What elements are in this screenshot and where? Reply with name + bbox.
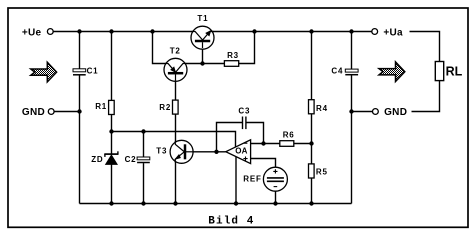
- capacitor C2: [125, 155, 150, 164]
- svg-text:C4: C4: [331, 66, 343, 75]
- wire T1 base down to node: [202, 45, 204, 64]
- wire C2 branch vertical: [143, 132, 145, 204]
- svg-text:GND: GND: [22, 107, 45, 118]
- terminal GND input: [22, 107, 54, 118]
- resistor R4: [309, 100, 328, 114]
- wire GND right to RL bottom: [412, 81, 440, 112]
- wire top rail +Ue to +Ua: [53, 31, 371, 33]
- node ground rail R5: [309, 201, 313, 205]
- svg-text:+Ua: +Ua: [383, 27, 403, 38]
- svg-text:GND: GND: [384, 107, 407, 118]
- wire T2 base to R2: [175, 78, 177, 100]
- op-amp U1: [226, 140, 251, 164]
- wire R1/ZD branch vertical: [111, 32, 113, 204]
- voltage reference REF: [243, 167, 287, 191]
- node top rail left branch: [150, 29, 154, 33]
- wire R6 to divider rail: [294, 143, 312, 145]
- wire C1 branch vertical: [79, 32, 81, 204]
- node T1 base T2 collector: [200, 61, 204, 65]
- svg-text:C1: C1: [87, 66, 99, 75]
- node top rail R4: [309, 29, 313, 33]
- node zener R1: [109, 129, 113, 133]
- terminal +Ue: [22, 27, 53, 38]
- svg-text:R3: R3: [227, 51, 239, 60]
- wire op-amp V- to ground rail: [235, 153, 237, 204]
- svg-text:R2: R2: [159, 103, 171, 112]
- node ground rail ZD: [109, 201, 113, 205]
- wire T3 emitter to ground rail: [175, 160, 177, 204]
- resistor R6: [280, 131, 295, 147]
- wire non-inverting input to REF: [251, 159, 276, 169]
- wire R2 to T3 collector: [175, 114, 177, 143]
- node R6 divider: [309, 141, 313, 145]
- svg-text:R1: R1: [95, 102, 107, 111]
- resistor R5: [309, 164, 328, 178]
- node top rail R1: [109, 29, 113, 33]
- transistor T1: [191, 14, 214, 49]
- resistor R1: [95, 100, 114, 114]
- node inverting input C3: [261, 141, 265, 145]
- wire GND right terminal: [352, 111, 373, 113]
- node GND right: [349, 109, 353, 113]
- svg-text:C2: C2: [125, 155, 137, 164]
- svg-text:R4: R4: [316, 104, 328, 113]
- svg-text:R6: R6: [283, 131, 295, 140]
- terminal GND output: [373, 107, 408, 118]
- svg-text:OA: OA: [235, 146, 247, 155]
- wire REF bottom to ground rail: [275, 191, 277, 204]
- wire T3 base to op-amp output node: [193, 151, 226, 153]
- transistor T2: [164, 47, 187, 82]
- node GND left: [77, 109, 81, 113]
- resistor R3: [224, 51, 239, 67]
- node top rail R3: [252, 29, 256, 33]
- resistor R2: [159, 100, 178, 114]
- svg-text:T2: T2: [170, 47, 181, 56]
- node top rail C4: [349, 29, 353, 33]
- svg-text:RL: RL: [446, 65, 463, 79]
- svg-text:R5: R5: [316, 168, 328, 177]
- wire bottom ground rail: [80, 203, 352, 205]
- node op-amp output: [214, 150, 218, 154]
- capacitor C1: [73, 66, 98, 75]
- wire +Ua to RL top: [410, 32, 440, 62]
- svg-text:ZD: ZD: [91, 155, 103, 164]
- wire zener node supply line to op-amp V+: [112, 132, 236, 151]
- svg-text:+Ue: +Ue: [22, 27, 42, 38]
- node ground rail REF: [273, 201, 277, 205]
- svg-text:C3: C3: [238, 107, 250, 116]
- load resistor RL: [435, 62, 462, 81]
- wire T2 collector to R3: [185, 63, 225, 65]
- output arrow: [379, 62, 405, 82]
- input arrow: [31, 62, 57, 82]
- wire C4 branch vertical: [351, 32, 353, 204]
- node top rail C1: [77, 29, 81, 33]
- wire GND left terminal: [54, 111, 79, 113]
- wire inverting input to R6: [251, 143, 280, 145]
- svg-text:Bild 4: Bild 4: [208, 216, 254, 228]
- wire feedback C3 left: [217, 123, 243, 152]
- wire R4 R5 divider vertical: [311, 32, 313, 204]
- node ground rail op-amp: [234, 201, 238, 205]
- svg-text:REF: REF: [243, 175, 261, 184]
- terminal +Ua: [372, 27, 403, 38]
- wire feedback C3 right to inverting input: [246, 123, 263, 144]
- wire R3 right up to rail: [239, 32, 255, 64]
- svg-text:T3: T3: [156, 146, 167, 155]
- capacitor C4: [331, 66, 358, 75]
- zener diode ZD: [91, 151, 118, 164]
- svg-text:T1: T1: [197, 14, 208, 23]
- node C2 supply: [141, 129, 145, 133]
- node ground rail C2: [141, 201, 145, 205]
- wire left rail to T2 emitter: [153, 32, 167, 64]
- capacitor C3: [238, 107, 250, 130]
- node ground rail T3: [173, 201, 177, 205]
- transistor T3: [156, 140, 193, 163]
